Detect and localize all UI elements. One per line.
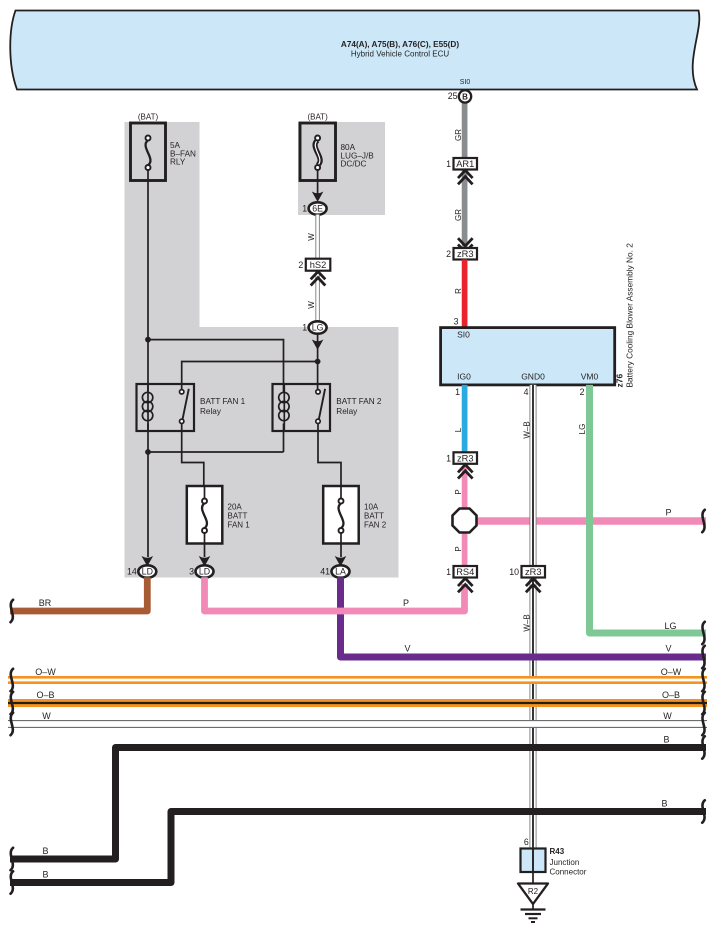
svg-text:1: 1 [455,387,460,397]
svg-text:6E: 6E [312,204,323,214]
svg-text:(BAT): (BAT) [138,113,159,122]
svg-text:GND0: GND0 [521,372,545,382]
svg-text:2: 2 [298,260,303,270]
svg-text:Connector: Connector [550,868,587,877]
svg-text:LD: LD [142,567,153,577]
svg-text:zR3: zR3 [457,249,474,259]
svg-text:1: 1 [446,159,451,169]
svg-text:P: P [454,489,463,494]
svg-text:2: 2 [446,249,451,259]
svg-text:V: V [665,644,671,654]
svg-text:FAN 2: FAN 2 [364,521,387,530]
svg-text:R2: R2 [528,887,539,896]
svg-text:4: 4 [524,387,529,397]
svg-text:LG: LG [578,424,587,435]
svg-text:B: B [663,735,669,745]
svg-text:P: P [403,598,409,608]
svg-text:LG: LG [312,323,324,333]
svg-text:BATT: BATT [364,512,384,521]
svg-text:1: 1 [302,323,307,333]
svg-text:IG0: IG0 [457,372,471,382]
svg-text:VM0: VM0 [581,372,599,382]
svg-text:10A: 10A [364,503,379,512]
svg-text:GR: GR [454,209,463,221]
svg-text:RLY: RLY [170,158,186,167]
svg-text:25: 25 [448,91,458,101]
svg-text:P: P [665,508,671,518]
svg-text:zR3: zR3 [457,453,474,463]
svg-text:V: V [404,644,410,654]
svg-text:SI0: SI0 [460,79,471,86]
svg-text:DC/DC: DC/DC [341,160,367,169]
svg-text:1: 1 [302,204,307,214]
svg-text:1: 1 [446,453,451,463]
svg-text:B: B [42,846,48,856]
svg-text:1: 1 [446,567,451,577]
svg-text:BR: BR [39,598,52,608]
svg-text:BATT FAN 1: BATT FAN 1 [200,397,246,406]
svg-text:GR: GR [454,129,463,141]
svg-text:A74(A), A75(B), A76(C), E55(D): A74(A), A75(B), A76(C), E55(D) [341,40,459,49]
svg-text:B: B [661,799,667,809]
svg-text:L: L [454,427,463,432]
svg-text:W: W [663,711,672,721]
svg-text:O–W: O–W [661,667,682,677]
svg-text:6: 6 [524,837,529,847]
svg-text:B: B [462,92,468,101]
svg-text:W: W [307,233,316,241]
svg-text:BATT: BATT [228,512,248,521]
svg-text:AR1: AR1 [456,159,474,169]
svg-text:O–B: O–B [662,690,680,700]
svg-text:LD: LD [199,567,210,577]
svg-text:(BAT): (BAT) [307,113,328,122]
svg-text:41: 41 [320,567,330,577]
svg-text:R: R [454,288,463,294]
svg-text:B: B [42,870,48,880]
svg-text:SI0: SI0 [457,330,470,340]
svg-text:Relay: Relay [200,407,222,416]
svg-text:10: 10 [509,567,519,577]
svg-text:R43: R43 [550,847,565,856]
svg-text:W–B: W–B [523,421,532,438]
svg-text:hS2: hS2 [310,260,327,270]
svg-text:3: 3 [189,567,194,577]
svg-text:14: 14 [127,567,137,577]
svg-text:W: W [42,711,51,721]
svg-text:LA: LA [335,567,346,577]
svg-text:O–B: O–B [36,690,54,700]
svg-text:z76: z76 [615,374,625,388]
svg-text:zR3: zR3 [525,567,542,577]
svg-text:3: 3 [454,317,459,327]
svg-text:LG: LG [664,621,676,631]
svg-text:W–B: W–B [523,614,532,631]
svg-text:W: W [307,301,316,309]
svg-text:2: 2 [580,387,585,397]
svg-text:Relay: Relay [336,407,358,416]
svg-text:P: P [454,546,463,551]
svg-text:Hybrid Vehicle Control ECU: Hybrid Vehicle Control ECU [351,50,449,59]
svg-text:BATT FAN 2: BATT FAN 2 [336,397,382,406]
svg-text:RS4: RS4 [456,567,474,577]
svg-text:20A: 20A [228,503,243,512]
svg-text:Battery Cooling Blower Assembl: Battery Cooling Blower Assembly No. 2 [625,243,635,388]
svg-text:O–W: O–W [35,667,56,677]
svg-text:FAN 1: FAN 1 [228,521,251,530]
svg-text:Junction: Junction [550,858,580,867]
